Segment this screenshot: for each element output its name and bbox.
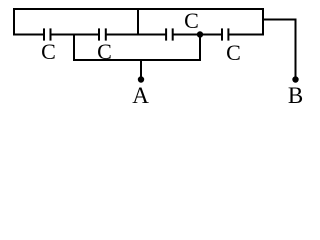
wire branch to B <box>262 19 296 21</box>
wire segment right of C4 <box>228 34 264 36</box>
wire lower-right vertical <box>199 34 201 62</box>
top bus wire <box>13 8 264 10</box>
wire segment C3 to C4 <box>173 34 222 36</box>
junction dot at C3-C4 node <box>197 31 203 37</box>
svg-text:C: C <box>226 40 241 65</box>
wire B stem vertical <box>295 19 297 80</box>
svg-text:C: C <box>41 39 56 64</box>
terminal dot A <box>138 76 144 82</box>
svg-text:B: B <box>288 83 303 108</box>
wire segment C1 to C2 <box>51 34 100 36</box>
wire segment left of C1 <box>13 34 44 36</box>
capacitor C2 <box>99 28 106 40</box>
wire lower-left vertical <box>73 34 75 62</box>
capacitor C1 <box>44 28 51 40</box>
wire right vertical <box>262 8 264 36</box>
svg-text:C: C <box>184 8 199 33</box>
capacitor C3 <box>166 28 173 40</box>
wire lower bottom horizontal <box>73 59 201 61</box>
wire A stem vertical <box>140 59 142 80</box>
wire middle vertical <box>137 8 139 36</box>
wire segment C2 to C3 <box>106 34 166 36</box>
capacitor C4 <box>222 28 228 40</box>
svg-text:A: A <box>132 83 149 108</box>
terminal dot B <box>292 76 298 82</box>
wire left vertical <box>13 8 15 36</box>
